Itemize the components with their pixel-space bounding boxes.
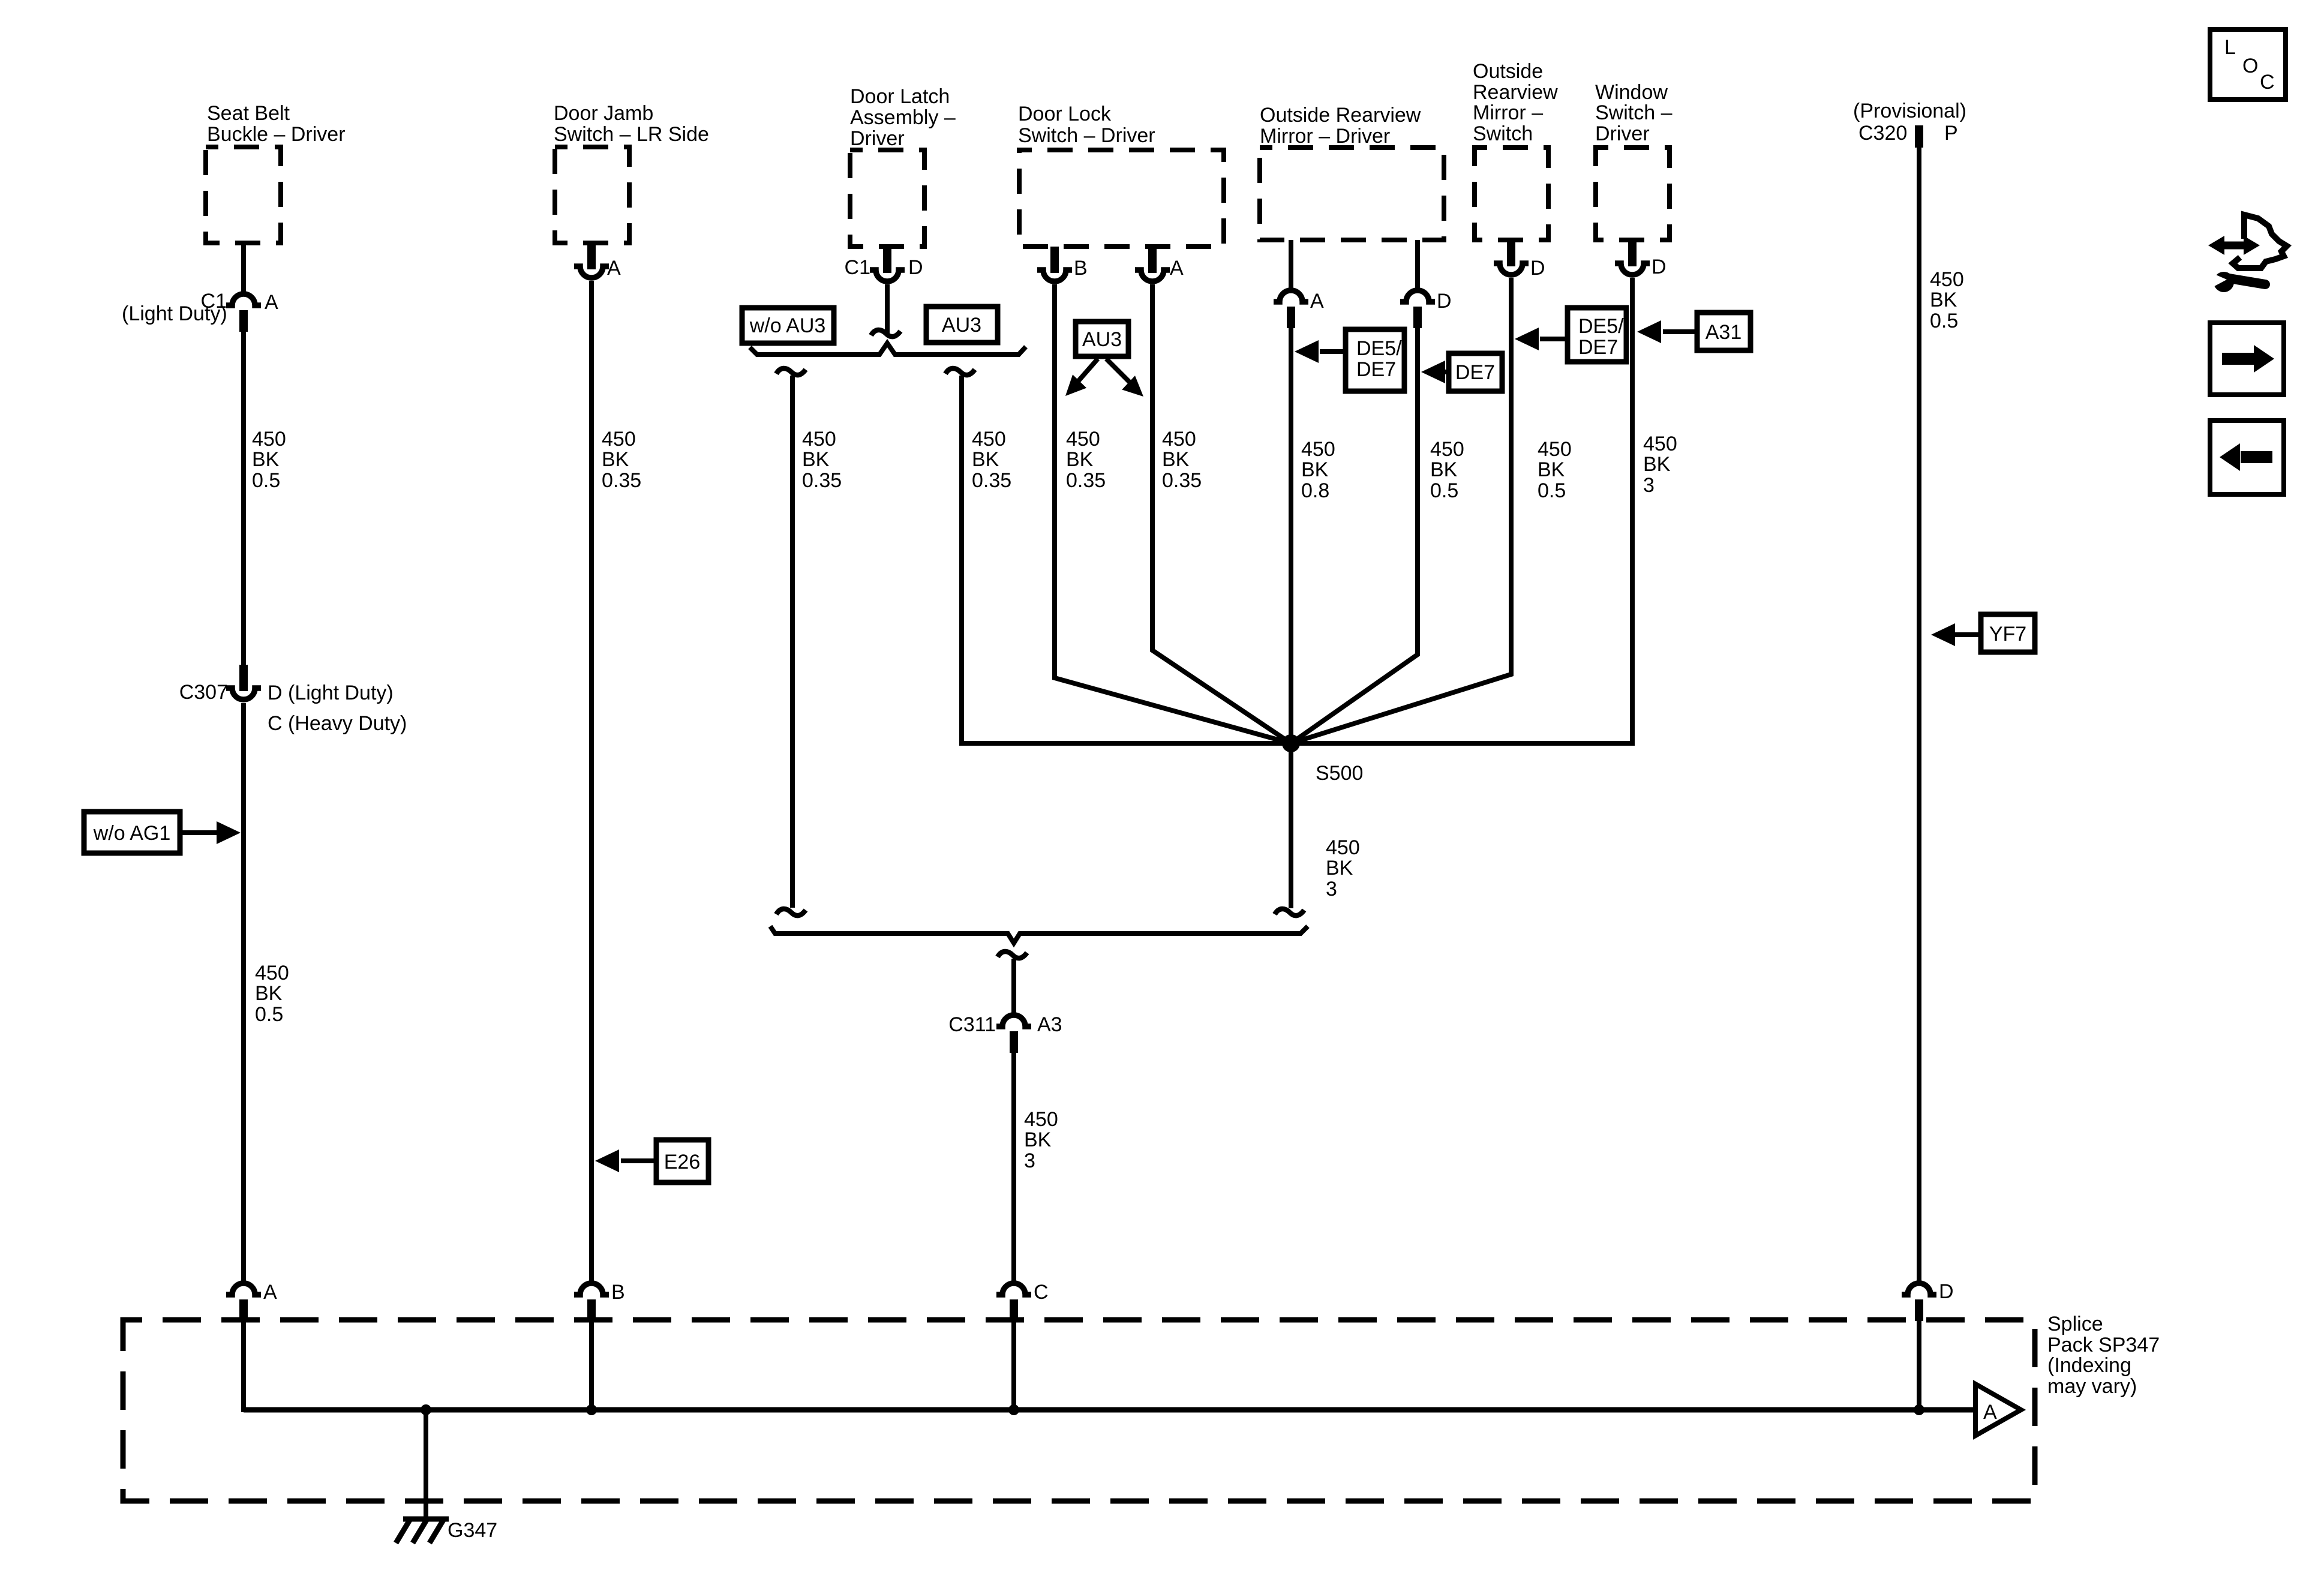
break S500 drop bottom xyxy=(1275,909,1304,915)
arrow A31 to window switch wire xyxy=(1663,329,1697,334)
connector D (splice pack, C320) xyxy=(1902,1283,1936,1321)
option box YF7 xyxy=(1981,614,2035,652)
svg-text:A: A xyxy=(1170,257,1184,280)
splice S500 xyxy=(1282,734,1300,752)
connector D (mirror switch) xyxy=(1494,240,1529,275)
svg-text:Pack SP347: Pack SP347 xyxy=(2047,1334,2160,1356)
svg-text:A31: A31 xyxy=(1706,321,1742,344)
svg-text:A: A xyxy=(1983,1401,1997,1424)
connector A (door lock) xyxy=(1135,247,1170,281)
connector B (door lock) xyxy=(1037,247,1072,281)
connector C320 P pin xyxy=(1915,125,1923,148)
wire Seat Belt box stub xyxy=(241,243,246,295)
junction dot ground tap xyxy=(421,1404,431,1415)
wire mirror switch D 450 BK 0.5 to S500 xyxy=(1291,278,1511,743)
svg-text:BK: BK xyxy=(1066,448,1094,471)
brace (gather to C311) xyxy=(770,926,1308,943)
svg-text:Switch: Switch xyxy=(1473,122,1533,145)
wire mirror D stub xyxy=(1415,240,1420,292)
svg-text:BK: BK xyxy=(1326,857,1353,879)
svg-text:DE5/: DE5/ xyxy=(1578,315,1624,338)
icon arrow right box xyxy=(2210,323,2284,395)
svg-text:0.35: 0.35 xyxy=(802,469,842,492)
arrow E26 to door jamb wire xyxy=(621,1158,656,1163)
connector A (mirror driver) xyxy=(1274,290,1308,328)
svg-text:Mirror –: Mirror – xyxy=(1473,101,1543,124)
svg-text:C307: C307 xyxy=(179,681,228,704)
svg-text:0.5: 0.5 xyxy=(1538,479,1566,502)
wire D to bus xyxy=(1917,1321,1921,1412)
svg-text:450: 450 xyxy=(255,962,289,984)
svg-text:(Light Duty): (Light Duty) xyxy=(122,302,227,325)
svg-text:O: O xyxy=(2242,55,2258,77)
svg-text:Door Lock: Door Lock xyxy=(1018,103,1112,125)
component Outside Rearview Mirror - Switch: dashed box xyxy=(1475,148,1548,240)
brace (door latch options) xyxy=(750,343,1026,355)
arrow DE7 to mirror D wire xyxy=(1443,370,1449,374)
arrow AU3 left xyxy=(1077,359,1098,383)
svg-text:BK: BK xyxy=(1930,289,1957,311)
break on door latch wire xyxy=(871,330,900,337)
svg-text:A: A xyxy=(1310,290,1324,313)
wire C320 450 BK 0.5 xyxy=(1917,148,1921,1284)
svg-text:B: B xyxy=(1074,257,1088,280)
component Door Lock Switch - Driver: dashed box xyxy=(1019,150,1224,247)
option box DE7 (mirror D) xyxy=(1449,353,1502,391)
connector D (mirror driver) xyxy=(1400,290,1435,328)
wire seat belt to bus xyxy=(241,1321,246,1412)
junction dot D xyxy=(1914,1404,1924,1415)
svg-text:B: B xyxy=(611,1281,625,1304)
wire mirror A stub xyxy=(1289,240,1293,292)
wire door jamb 450 BK 0.35 xyxy=(589,281,594,1284)
svg-text:450: 450 xyxy=(1326,836,1360,859)
wire seat belt 450 BK 0.5 lower xyxy=(241,703,246,1284)
splice pack SP347 dashed box xyxy=(123,1320,2035,1501)
svg-text:0.5: 0.5 xyxy=(1430,479,1458,502)
ground G347 xyxy=(396,1519,449,1543)
svg-text:450: 450 xyxy=(1066,428,1100,451)
svg-text:C311: C311 xyxy=(948,1013,996,1036)
component Outside Rearview Mirror - Driver: dashed box xyxy=(1260,148,1444,240)
component Door Latch Assembly - Driver: dashed box xyxy=(850,150,924,247)
svg-text:BK: BK xyxy=(972,448,999,471)
svg-text:0.5: 0.5 xyxy=(255,1003,283,1026)
wire mirror D 450 BK 0.5 to S500 xyxy=(1291,328,1418,743)
svg-text:E26: E26 xyxy=(664,1151,701,1173)
wire w/o AU3 branch 450 BK 0.35 xyxy=(790,376,795,908)
option box AU3 (door latch) xyxy=(926,307,998,343)
icon arrow left box xyxy=(2210,421,2284,494)
wire S500 drop 450 BK 3 xyxy=(1289,743,1293,908)
wire window switch D 450 BK 3 xyxy=(1630,278,1635,746)
svg-text:D: D xyxy=(1530,257,1545,280)
break AU3 branch top xyxy=(945,368,975,375)
svg-text:3: 3 xyxy=(1024,1149,1035,1172)
svg-text:AU3: AU3 xyxy=(942,314,981,337)
svg-text:A3: A3 xyxy=(1037,1013,1062,1036)
svg-text:Seat Belt: Seat Belt xyxy=(207,102,290,125)
svg-text:BK: BK xyxy=(1643,453,1671,476)
svg-text:Door Latch: Door Latch xyxy=(850,85,950,108)
svg-text:C (Heavy Duty): C (Heavy Duty) xyxy=(268,712,407,735)
connector C1 D (door latch) xyxy=(870,247,905,281)
svg-text:D: D xyxy=(1939,1280,1954,1303)
svg-text:450: 450 xyxy=(602,428,636,451)
svg-text:450: 450 xyxy=(1162,428,1196,451)
wire door lock B 450 BK 0.35 xyxy=(1055,284,1291,743)
svg-text:A: A xyxy=(263,1281,277,1304)
svg-text:A: A xyxy=(607,257,621,280)
svg-text:0.5: 0.5 xyxy=(1930,310,1958,332)
svg-text:0.35: 0.35 xyxy=(972,469,1011,492)
option box DE5/DE7 (mirror driver) xyxy=(1346,329,1404,391)
svg-text:S500: S500 xyxy=(1316,762,1363,785)
svg-text:G347: G347 xyxy=(448,1519,497,1542)
arrow AU3 right xyxy=(1106,359,1130,383)
option box w/o AU3 xyxy=(742,308,834,343)
svg-text:450: 450 xyxy=(1538,438,1572,461)
svg-text:DE7: DE7 xyxy=(1455,361,1495,384)
icon vehicle with wrench xyxy=(2208,215,2287,292)
svg-text:DE7: DE7 xyxy=(1578,336,1618,359)
wire door jamb to bus xyxy=(589,1321,594,1412)
svg-text:D: D xyxy=(908,256,923,279)
svg-text:450: 450 xyxy=(1301,438,1335,461)
svg-text:C: C xyxy=(1034,1281,1049,1304)
svg-text:BK: BK xyxy=(255,982,283,1005)
bus wire inside splice pack xyxy=(244,1407,1975,1413)
svg-text:3: 3 xyxy=(1326,878,1337,900)
svg-text:BK: BK xyxy=(802,448,830,471)
svg-text:450: 450 xyxy=(1024,1108,1058,1131)
svg-text:BK: BK xyxy=(1301,458,1329,481)
svg-text:C: C xyxy=(2260,71,2275,94)
junction dot B xyxy=(586,1404,597,1415)
arrow DE5/DE7 to mirror switch wire xyxy=(1540,337,1568,341)
junction dot C xyxy=(1008,1404,1019,1415)
svg-text:Splice: Splice xyxy=(2047,1313,2103,1335)
svg-text:L: L xyxy=(2224,36,2236,59)
svg-text:D: D xyxy=(1437,290,1452,313)
svg-text:Driver: Driver xyxy=(850,127,905,150)
connector D (window switch) xyxy=(1615,240,1650,275)
svg-text:Outside Rearview: Outside Rearview xyxy=(1260,104,1421,127)
wire mirror A 450 BK 0.8 to S500 xyxy=(1289,328,1293,743)
svg-text:BK: BK xyxy=(1024,1128,1052,1151)
svg-text:may vary): may vary) xyxy=(2047,1375,2137,1398)
icon LOC box xyxy=(2210,29,2286,100)
arrow w/o AG1 to seat belt wire xyxy=(180,830,219,835)
svg-text:0.8: 0.8 xyxy=(1301,479,1329,502)
break w/o AU3 branch top xyxy=(776,368,806,375)
svg-text:DE5/: DE5/ xyxy=(1356,337,1402,360)
svg-text:w/o AU3: w/o AU3 xyxy=(749,314,826,337)
svg-text:D: D xyxy=(1652,256,1667,278)
svg-text:0.35: 0.35 xyxy=(1162,469,1202,492)
svg-text:0.5: 0.5 xyxy=(252,469,280,492)
option box A31 xyxy=(1697,313,1750,350)
wire seat belt 450 BK 0.5 upper xyxy=(241,332,246,666)
svg-text:Switch – Driver: Switch – Driver xyxy=(1018,124,1155,147)
svg-text:BK: BK xyxy=(1430,458,1458,481)
svg-text:Switch –: Switch – xyxy=(1595,101,1673,124)
wire brace to C311 xyxy=(1011,959,1016,1016)
svg-text:0.35: 0.35 xyxy=(602,469,641,492)
svg-text:Switch – LR Side: Switch – LR Side xyxy=(554,123,709,146)
svg-text:(Provisional): (Provisional) xyxy=(1853,100,1966,122)
svg-text:(Indexing: (Indexing xyxy=(2047,1354,2131,1377)
arrow YF7 to C320 wire xyxy=(1951,632,1981,637)
svg-text:DE7: DE7 xyxy=(1356,358,1396,381)
svg-text:P: P xyxy=(1944,122,1958,145)
svg-text:C320: C320 xyxy=(1858,122,1907,145)
svg-text:Assembly –: Assembly – xyxy=(850,106,956,129)
svg-text:BK: BK xyxy=(252,448,280,471)
terminal triangle A xyxy=(1975,1384,2021,1436)
svg-text:Mirror – Driver: Mirror – Driver xyxy=(1260,125,1390,148)
connector C311 A3 xyxy=(996,1015,1031,1053)
svg-text:Rearview: Rearview xyxy=(1473,81,1558,104)
connector A (door jamb) xyxy=(574,243,609,278)
svg-text:YF7: YF7 xyxy=(1989,623,2026,646)
svg-text:450: 450 xyxy=(252,428,286,451)
wire AU3 branch 450 BK 0.35 to S500 xyxy=(962,376,1632,743)
svg-text:450: 450 xyxy=(1430,438,1464,461)
arrow DE5/DE7 to mirror A wire xyxy=(1320,349,1346,354)
break w/o AU3 branch bottom xyxy=(776,909,806,915)
svg-text:BK: BK xyxy=(602,448,629,471)
option box w/o AG1 xyxy=(84,812,180,853)
svg-text:Door Jamb: Door Jamb xyxy=(554,102,653,125)
option box DE5/DE7 (mirror switch) xyxy=(1568,308,1626,362)
svg-text:450: 450 xyxy=(1643,433,1677,455)
break below brace xyxy=(998,951,1027,958)
component Door Jamb Switch - LR Side: dashed box xyxy=(555,147,629,243)
component Window Switch - Driver: dashed box xyxy=(1596,148,1670,240)
svg-text:450: 450 xyxy=(802,428,836,451)
wire C to bus xyxy=(1011,1321,1016,1412)
svg-text:Window: Window xyxy=(1595,81,1668,104)
svg-text:w/o AG1: w/o AG1 xyxy=(93,822,171,845)
wire door lock A 450 BK 0.35 xyxy=(1152,284,1291,743)
component Seat Belt Buckle - Driver: dashed box xyxy=(206,147,281,243)
svg-text:Buckle – Driver: Buckle – Driver xyxy=(207,123,346,146)
svg-text:3: 3 xyxy=(1643,474,1655,497)
wire ground drop xyxy=(424,1410,428,1518)
option box E26 xyxy=(656,1140,708,1182)
svg-text:BK: BK xyxy=(1162,448,1190,471)
wire C311 450 BK 3 xyxy=(1011,1053,1016,1284)
svg-text:Outside: Outside xyxy=(1473,60,1543,83)
svg-text:D (Light Duty): D (Light Duty) xyxy=(268,682,394,704)
svg-text:AU3: AU3 xyxy=(1082,328,1122,351)
connector C1 A (seat belt, inline) xyxy=(226,294,261,332)
svg-text:C1: C1 xyxy=(845,256,870,279)
connector C307 xyxy=(226,665,261,700)
svg-text:BK: BK xyxy=(1538,458,1565,481)
connector A (splice pack, seat belt) xyxy=(226,1283,261,1321)
svg-text:A: A xyxy=(265,291,278,314)
wire door latch to brace xyxy=(885,284,890,335)
connector C (splice pack) xyxy=(996,1283,1031,1321)
svg-text:450: 450 xyxy=(972,428,1006,451)
svg-text:0.35: 0.35 xyxy=(1066,469,1106,492)
option box AU3 (door lock) xyxy=(1076,322,1128,356)
connector B (splice pack, door jamb) xyxy=(574,1283,609,1321)
svg-text:Driver: Driver xyxy=(1595,122,1650,145)
svg-text:450: 450 xyxy=(1930,268,1964,291)
